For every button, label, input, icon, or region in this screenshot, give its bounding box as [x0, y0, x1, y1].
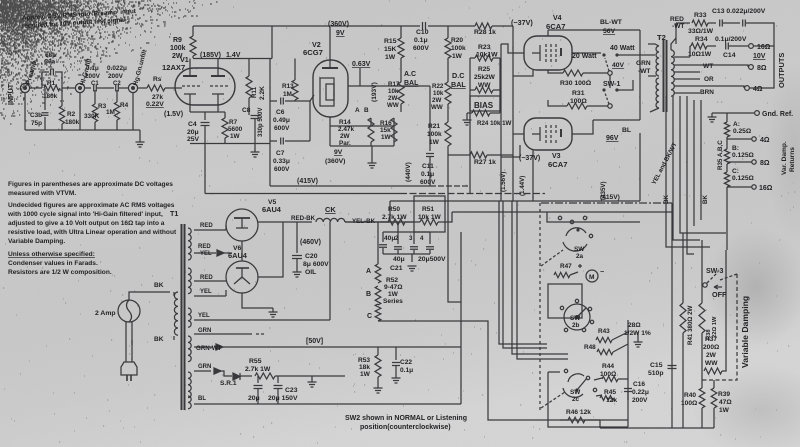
svg-text:R14: R14 [339, 119, 351, 126]
capacitor C14 0.1u 200V [726, 43, 729, 50]
V6 plate wire [258, 222, 283, 277]
SR1 wire [194, 370, 211, 372]
V1 cathode b [212, 93, 224, 95]
svg-text:180k: 180k [65, 119, 80, 126]
svg-text:V4: V4 [553, 15, 562, 22]
fuse wire top [129, 292, 170, 300]
svg-text:18k: 18k [359, 364, 370, 371]
V1 grid wire from R5 [176, 87, 182, 89]
svg-text:2b: 2b [572, 322, 580, 329]
svg-text:C3b: C3b [30, 112, 42, 119]
BIAS box [470, 96, 500, 111]
svg-text:R17: R17 [388, 81, 400, 88]
V1 grid b [210, 85, 228, 87]
capacitor C1 0.1u [94, 85, 97, 92]
capacitor C8 330p [251, 116, 260, 119]
capacitor C6 0.49u [270, 100, 277, 102]
V2 plate bar [322, 67, 338, 69]
V3 grid wire [513, 133, 524, 135]
svg-text:6AU4: 6AU4 [228, 251, 248, 260]
V3 grid dashes [546, 125, 556, 143]
svg-text:SW-3: SW-3 [706, 268, 723, 275]
svg-text:100Ω: 100Ω [600, 371, 617, 378]
svg-text:C11: C11 [422, 163, 434, 170]
resistor R51 10k 1W [414, 221, 420, 223]
svg-text:WW: WW [387, 102, 399, 109]
resistor R4 1M [116, 90, 118, 102]
wire jack3 to R5 [138, 87, 147, 89]
svg-text:330K: 330K [84, 113, 100, 120]
V4 V3 cathode drops [513, 70, 533, 76]
svg-text:8μ 600V: 8μ 600V [303, 261, 329, 268]
svg-text:1M: 1M [283, 91, 292, 98]
resistor R35C 0.125 [724, 172, 729, 187]
svg-text:R11: R11 [251, 86, 258, 98]
V1 grid a [182, 85, 200, 87]
svg-text:C21: C21 [390, 265, 403, 272]
rectifier SR1 [220, 371, 232, 376]
svg-text:GRN: GRN [198, 364, 211, 370]
T1 bias winding [188, 396, 191, 409]
SW-1 top wiper [608, 71, 612, 75]
svg-text:47Ω: 47Ω [719, 399, 732, 406]
resistor R20 100k 1W [447, 26, 449, 38]
wire 360V drop to V2 [329, 27, 331, 60]
primary bottom wire [131, 340, 133, 345]
capacitor C10 0.1u 600V [423, 22, 426, 30]
bottom bus right [600, 427, 714, 429]
svg-text:10V: 10V [753, 53, 766, 60]
V4 cathode bracket [532, 45, 540, 61]
svg-text:4Ω: 4Ω [760, 137, 770, 144]
svg-text:0.1μ: 0.1μ [414, 37, 428, 44]
V2 plate wire right [360, 85, 430, 87]
svg-text:R15: R15 [384, 38, 397, 45]
ground bus input [25, 129, 140, 131]
svg-text:GRN: GRN [636, 60, 651, 67]
V3 plate wire [572, 120, 593, 134]
resistor R52b [375, 286, 381, 305]
svg-text:(1.44V): (1.44V) [519, 176, 526, 196]
T2 primary center tap [648, 75, 656, 77]
svg-text:0.1μ/200V: 0.1μ/200V [715, 36, 747, 43]
tube V1 12AX7 envelope [175, 68, 235, 105]
svg-text:[50V]: [50V] [306, 338, 323, 345]
svg-text:20 Watt: 20 Watt [572, 53, 597, 60]
cathode ground line [190, 143, 270, 145]
V5 V6 link [241, 241, 243, 261]
capacitor C13 0.022u 200V [720, 20, 723, 27]
svg-text:0.1μ: 0.1μ [400, 367, 413, 374]
svg-text:(−37V): (−37V) [511, 18, 533, 27]
wire x488 down [378, 321, 600, 420]
ground V2 cathode [368, 163, 377, 168]
resistor R44 100 [594, 378, 602, 380]
resistor R40 100 [701, 371, 703, 388]
svg-text:28Ω: 28Ω [628, 322, 641, 329]
gnd ref wire [712, 112, 754, 114]
SW2 box outline [548, 372, 628, 427]
svg-text:600V: 600V [274, 166, 290, 173]
svg-text:BL: BL [622, 127, 631, 134]
T1 heater winding1 [188, 308, 191, 327]
resistor R39 47 1W [713, 380, 715, 388]
wire x517 down [517, 201, 568, 359]
svg-text:BIAS: BIAS [474, 101, 494, 110]
resistor R17 10k 2W WW [400, 64, 402, 82]
svg-text:YEL-BK: YEL-BK [352, 218, 376, 225]
svg-text:Condenser values in Farads.: Condenser values in Farads. [8, 260, 98, 267]
svg-text:100k: 100k [170, 45, 186, 52]
grid bus x470 [469, 90, 471, 194]
svg-text:3: 3 [409, 235, 413, 242]
svg-text:R50: R50 [388, 206, 400, 213]
svg-text:Series: Series [383, 298, 403, 305]
power plug wires [125, 322, 127, 362]
svg-text:600V: 600V [413, 45, 429, 52]
svg-text:2W: 2W [388, 95, 397, 102]
svg-text:40μ: 40μ [393, 256, 405, 263]
resistor R23 10k 1W [475, 55, 493, 61]
resistor R1 180k [44, 85, 60, 91]
vd wire x672 [671, 203, 673, 428]
415V bus dashed right [430, 185, 470, 187]
svg-text:5600: 5600 [228, 126, 243, 133]
T2 secondary winding [671, 50, 674, 96]
svg-text:20μ 150V: 20μ 150V [268, 395, 298, 402]
resistor R28 1k [475, 23, 492, 29]
svg-text:adjusted to give a 10 Volt out: adjusted to give a 10 Volt output on 16Ω… [8, 220, 165, 227]
wire node to jack2 [62, 87, 75, 89]
T2 primary winding lower [656, 78, 659, 108]
svg-text:12k: 12k [606, 397, 617, 404]
resistor R33 33ohm [676, 22, 690, 24]
SW2 dashed diagonal [541, 250, 563, 266]
T1 to V6 wire [194, 280, 226, 282]
svg-text:C:: C: [732, 168, 739, 175]
capacitor C2 0.022u [116, 85, 119, 92]
svg-text:180k: 180k [43, 93, 58, 100]
svg-text:200V: 200V [632, 397, 648, 404]
tap 16ohm damp [727, 186, 752, 188]
svg-text:BAL: BAL [404, 80, 419, 87]
svg-text:16Ω: 16Ω [759, 185, 773, 192]
svg-text:100Ω: 100Ω [681, 400, 698, 407]
svg-text:2.7k 1W: 2.7k 1W [382, 214, 407, 221]
vd wire x702 [701, 240, 703, 303]
svg-text:C13 0.022μ/200V: C13 0.022μ/200V [712, 8, 766, 15]
svg-text:27k: 27k [152, 94, 163, 101]
svg-text:0.22V: 0.22V [146, 101, 164, 108]
capacitor C16 0.22u [624, 389, 632, 392]
svg-text:R51: R51 [422, 206, 434, 213]
svg-text:56V: 56V [603, 28, 616, 35]
svg-text:BRN: BRN [700, 89, 714, 96]
bus y201 drop from box [389, 201, 391, 222]
capacitor C3a 68p [42, 72, 49, 88]
svg-text:YEL: YEL [198, 313, 210, 319]
svg-text:R7: R7 [229, 119, 238, 126]
svg-text:RED: RED [198, 244, 211, 250]
svg-text:15K: 15K [384, 46, 397, 53]
svg-text:(−37V): (−37V) [519, 155, 540, 162]
meter box [548, 284, 582, 318]
resistor R53 18k 1W [377, 347, 379, 355]
resistor R41 380 2W [680, 303, 686, 333]
svg-text:2W: 2W [340, 133, 351, 140]
svg-text:T2: T2 [657, 33, 666, 42]
input jack J3 hi-gain unfiltered [128, 83, 137, 92]
resistor R16 15k 1W [391, 118, 397, 142]
resistor R43 [596, 337, 612, 342]
svg-text:2.47k: 2.47k [338, 126, 354, 133]
415V bus [269, 183, 271, 186]
svg-text:R33: R33 [694, 12, 707, 19]
svg-text:6CA7: 6CA7 [546, 22, 565, 31]
diode arrow ct [194, 252, 216, 254]
SW-1 bottom contacts [602, 88, 605, 91]
svg-text:-WT: -WT [672, 23, 684, 30]
V3V4 cathode bus drop [532, 157, 534, 201]
svg-text:R45: R45 [604, 389, 616, 396]
svg-text:BK: BK [154, 336, 164, 343]
svg-text:(360V): (360V) [328, 21, 349, 28]
tap 4ohm damp [727, 138, 752, 140]
svg-text:C16: C16 [633, 381, 645, 388]
svg-text:R43: R43 [598, 328, 610, 335]
T1 heater winding2 [188, 336, 191, 362]
node line x270 [269, 59, 271, 184]
capacitor C3b 75p [44, 88, 46, 110]
grid bus x513 [512, 26, 514, 201]
svg-text:R2: R2 [67, 111, 76, 118]
svg-text:measured with VTVM.: measured with VTVM. [8, 190, 76, 197]
svg-text:Resistors are 1/2 W compositio: Resistors are 1/2 W composition. [8, 269, 112, 276]
V4 plate wire [572, 52, 601, 54]
T1 primary coil [174, 292, 178, 335]
svg-text:R28 1k: R28 1k [474, 29, 496, 36]
svg-text:C10: C10 [416, 29, 429, 36]
svg-text:R55: R55 [249, 358, 262, 365]
svg-text:R35 A,B,C: R35 A,B,C [717, 140, 724, 170]
V6 cathode down [242, 293, 273, 308]
sec drop x694 [693, 100, 695, 226]
wire x499 down [499, 201, 547, 344]
svg-text:2 Amp: 2 Amp [95, 310, 116, 317]
svg-text:4Ω: 4Ω [753, 86, 763, 93]
svg-text:R9: R9 [173, 37, 182, 44]
svg-text:Gnd. Ref.: Gnd. Ref. [762, 111, 793, 118]
svg-text:8Ω: 8Ω [760, 160, 770, 167]
resistor R46 12k [568, 417, 585, 423]
svg-text:S.R.1: S.R.1 [220, 380, 237, 387]
svg-text:C15: C15 [650, 362, 663, 369]
svg-text:22Ω 1W: 22Ω 1W [712, 316, 718, 338]
V3 plate mark [560, 129, 562, 137]
ground input bus [136, 142, 145, 147]
svg-text:SW: SW [574, 246, 585, 253]
resistor R5 27k [147, 85, 165, 91]
svg-text:C6: C6 [276, 109, 285, 116]
svg-text:6AU4: 6AU4 [262, 205, 282, 214]
svg-text:9V: 9V [334, 149, 343, 156]
svg-text:-WT: -WT [638, 68, 650, 75]
T2 core [664, 40, 667, 112]
svg-text:WW: WW [431, 104, 443, 111]
wire x628 col [627, 320, 629, 427]
svg-text:R44: R44 [602, 363, 614, 370]
svg-text:WW: WW [705, 360, 718, 367]
resistor R11 2.2K [248, 59, 250, 77]
resistor R7 5600 1W [222, 118, 228, 138]
scan speckle noise top-left [0, 0, 218, 124]
cathode bus y193 [205, 193, 400, 195]
resistor R34 10ohm [690, 45, 691, 47]
svg-text:Unless otherwise specified:: Unless otherwise specified: [8, 251, 95, 258]
SW2 dashed diagonal2 [541, 392, 565, 408]
svg-text:10k 1W: 10k 1W [418, 214, 442, 221]
tap 8ohm damp [727, 161, 752, 163]
svg-text:-YEL: -YEL [198, 251, 212, 257]
svg-text:YEL: YEL [200, 289, 212, 295]
bottom bus y201 [390, 200, 640, 202]
svg-text:(185V): (185V) [200, 52, 221, 59]
svg-text:1M: 1M [106, 109, 115, 116]
svg-text:200Ω: 200Ω [703, 344, 720, 351]
SW1 wires to T2 [617, 54, 655, 56]
V3 cathode bracket [532, 127, 540, 141]
svg-text:SW: SW [570, 389, 581, 396]
svg-text:15k: 15k [380, 127, 391, 134]
svg-text:0.63V: 0.63V [352, 61, 371, 68]
grid bus x501 [500, 44, 502, 201]
V1 plate a [189, 59, 191, 77]
svg-text:C8: C8 [242, 107, 251, 114]
grn wire [194, 333, 252, 335]
svg-text:R13: R13 [282, 83, 294, 90]
svg-text:4: 4 [420, 235, 424, 242]
svg-text:B:: B: [732, 145, 739, 152]
svg-text:R16: R16 [380, 120, 392, 127]
svg-text:BL: BL [198, 396, 206, 402]
svg-text:R41 380Ω 2W: R41 380Ω 2W [687, 305, 694, 345]
svg-text:CK: CK [325, 205, 336, 214]
terminal Gnd Ref [755, 111, 760, 116]
svg-text:R37: R37 [705, 336, 717, 343]
svg-text:2.2K: 2.2K [259, 86, 266, 100]
svg-text:68p: 68p [45, 52, 56, 59]
ground C21 [408, 266, 417, 271]
svg-text:6CA7: 6CA7 [548, 160, 567, 169]
V4 plate mark [560, 48, 562, 56]
vd dashed boundary [700, 274, 737, 380]
power plug P1 [121, 362, 137, 375]
svg-text:RED: RED [670, 16, 684, 23]
resistor R52a [375, 264, 381, 283]
svg-text:C3a: C3a [44, 60, 56, 66]
switch SW2c wafer [568, 374, 584, 382]
svg-text:1W: 1W [719, 407, 730, 414]
svg-text:12AX7: 12AX7 [162, 63, 185, 72]
svg-text:B: B [366, 291, 371, 298]
svg-text:10k: 10k [388, 88, 399, 95]
SW-1 bottom wiper [608, 104, 612, 108]
C21 bank caps [379, 245, 387, 248]
sec drop x673 [673, 96, 700, 240]
svg-text:Undecided figures are approxim: Undecided figures are approximate AC RMS… [8, 202, 175, 209]
meter M1 [586, 270, 598, 282]
svg-text:Var. Damp.: Var. Damp. [781, 141, 788, 175]
svg-text:OR: OR [704, 76, 714, 83]
T1 heater winding3 [188, 372, 191, 398]
svg-text:C22: C22 [400, 359, 412, 366]
svg-text:0.125Ω: 0.125Ω [732, 152, 755, 159]
ground C8 [251, 152, 260, 157]
svg-text:R48: R48 [584, 344, 596, 351]
wire jack2 to C1 [85, 87, 91, 89]
svg-text:600V: 600V [420, 179, 436, 186]
svg-text:BL-WT: BL-WT [600, 19, 623, 26]
resistor R22 10k 2W WW [447, 80, 449, 82]
vd wire x683 [682, 233, 684, 303]
SW2 dash-dot top [541, 202, 672, 204]
svg-text:1W: 1W [230, 133, 241, 140]
svg-text:R34: R34 [695, 36, 708, 43]
svg-text:10Ω1W: 10Ω1W [688, 51, 712, 58]
capacitor C22 0.1u [395, 347, 397, 360]
svg-text:6CG7: 6CG7 [303, 48, 323, 57]
svg-text:R24 10k 1W: R24 10k 1W [477, 120, 512, 127]
svg-text:OFF: OFF [712, 290, 727, 299]
svg-text:resistive load, with Ultra Lin: resistive load, with Ultra Linear operat… [8, 229, 177, 236]
svg-text:BK: BK [702, 195, 709, 204]
R35 chain top [726, 113, 728, 122]
svg-text:RED-BK: RED-BK [291, 215, 316, 222]
svg-text:R46 12k: R46 12k [566, 409, 591, 416]
svg-text:(415V): (415V) [297, 178, 318, 185]
svg-text:1W: 1W [381, 134, 392, 141]
svg-text:C2: C2 [113, 81, 121, 87]
svg-text:BK: BK [663, 195, 670, 204]
svg-text:C7: C7 [276, 150, 285, 157]
svg-text:GRN: GRN [198, 328, 211, 334]
svg-text:BAL: BAL [451, 80, 466, 89]
V2 cathode stem [329, 117, 331, 126]
ground output [711, 113, 713, 117]
svg-text:0.022μ: 0.022μ [107, 65, 127, 72]
svg-text:9-47Ω: 9-47Ω [384, 284, 403, 291]
svg-text:16Ω: 16Ω [757, 44, 771, 51]
svg-text:SW: SW [570, 315, 581, 322]
svg-text:8Ω: 8Ω [757, 65, 767, 72]
terminal 16 ohm [749, 44, 754, 49]
resistor R21 100k 1W [445, 122, 451, 146]
tube V2 6CG7 envelope [313, 60, 348, 117]
resistor R30 100 [548, 70, 563, 73]
capacitor C20 8u 600V oil [296, 222, 298, 253]
svg-text:R39: R39 [718, 391, 730, 398]
resistor R13 1M [294, 59, 296, 81]
svg-text:0.1μ: 0.1μ [86, 65, 99, 72]
50V bus [194, 346, 213, 348]
svg-text:SW2 shown in NORMAL or Listeni: SW2 shown in NORMAL or Listening [345, 415, 467, 422]
wire x512 down [512, 201, 568, 354]
B+ top rail [193, 25, 420, 27]
svg-text:200V: 200V [85, 73, 101, 80]
B+ node to box [397, 222, 399, 232]
terminal 4 ohm [745, 86, 750, 91]
resistor R3 330K [94, 90, 96, 104]
